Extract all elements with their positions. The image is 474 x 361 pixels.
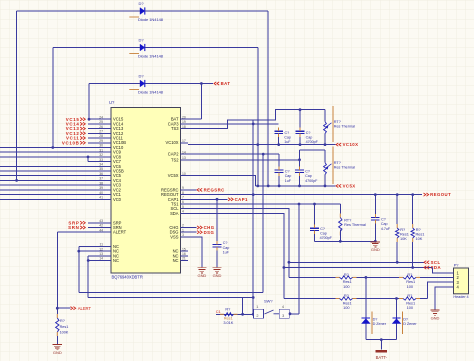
svg-text:10K: 10K (400, 236, 407, 241)
wire C1 net to boot resistor (216, 313, 253, 315)
pin VC0 (left, 41) (104, 198, 112, 200)
svg-text:4700pF: 4700pF (306, 140, 319, 144)
svg-text:4: 4 (282, 305, 284, 309)
wire NC3 horizontal run (88, 297, 253, 299)
pin SRN (left, 42) (104, 227, 112, 229)
wire ALERT to R 100K (56, 308, 58, 314)
wire BAT drop to pin (200, 84, 202, 120)
wire 4700pF g3 top (314, 204, 316, 225)
resistor R? 100 rail2 left (336, 298, 340, 300)
wire header pin4 to GND (435, 287, 446, 310)
resistor R? 100K pulldown (56, 314, 58, 318)
svg-text:4700pF: 4700pF (320, 236, 333, 240)
wire CAP1 stub (188, 198, 217, 200)
pin NC (left, 14) (104, 260, 112, 262)
pin NC (right, 21) (181, 260, 189, 262)
junction REGOUT / 4.7uF cap (374, 193, 377, 196)
wire D2 anode drop to VC10 (52, 48, 54, 148)
junction CAP3 row / long vertical (252, 123, 255, 126)
junction 1uF g2 bottom (278, 185, 281, 188)
svg-text:D?: D? (139, 38, 145, 43)
port BAT (214, 82, 219, 85)
pin SDA (right, 4) (181, 212, 189, 214)
svg-text:CAP2: CAP2 (168, 152, 179, 157)
wire cell tap VC1 (0, 194, 104, 196)
svg-text:C?: C? (306, 131, 311, 135)
junction SCL corner (288, 261, 291, 264)
svg-text:Cap: Cap (285, 174, 292, 178)
wire cell tap VC4 (0, 179, 104, 181)
wire D3 anode row (89, 83, 140, 85)
junction TS2 / 4700pF g2 (298, 158, 301, 161)
wire zener bottoms (366, 339, 397, 341)
svg-text:NC: NC (173, 258, 179, 263)
junction TS1 / 4700pF g3 (313, 203, 316, 206)
pin VC8 (left, 32) (104, 156, 112, 158)
pin 4 of header (446, 286, 454, 288)
junction at CAP2 row (262, 153, 265, 156)
svg-text:4700pF: 4700pF (305, 179, 318, 183)
svg-text:7: 7 (182, 196, 184, 200)
junction 4700pF g1 bottom (299, 143, 302, 146)
svg-text:ALERT: ALERT (78, 306, 92, 311)
svg-text:100: 100 (407, 284, 414, 289)
svg-text:1: 1 (256, 305, 258, 309)
svg-text:RT?: RT? (334, 120, 341, 124)
svg-text:GND: GND (213, 273, 222, 278)
pin lead mark of diode D1 (129, 16, 139, 18)
resistor R? 100 rail1 right (399, 276, 403, 278)
pin CHG (right, 2) (181, 227, 189, 229)
svg-text:R?: R? (60, 319, 65, 323)
svg-text:VC10B: VC10B (62, 140, 80, 145)
port SCL (424, 261, 429, 264)
wire pullup SDA top (412, 195, 414, 224)
pin CAP2 (right, 14) (181, 153, 189, 155)
wire ALERT drop (56, 232, 58, 308)
wire NC1 drop (78, 246, 80, 292)
switch SW? box1 (254, 309, 264, 318)
svg-text:C?: C? (285, 170, 290, 174)
ground GND under CAP1 cap (216, 266, 218, 269)
junction zener2 top on rail2 (395, 297, 398, 300)
wire boot riser to TS1 (298, 204, 300, 314)
pin VC2 (left, 39) (104, 189, 112, 191)
svg-text:REGOUT: REGOUT (430, 192, 451, 197)
svg-text:D Zener: D Zener (373, 322, 387, 326)
svg-text:14: 14 (182, 150, 186, 154)
svg-text:VC10X: VC10X (166, 140, 179, 145)
svg-text:17: 17 (182, 139, 186, 143)
svg-text:C1: C1 (216, 309, 221, 314)
pin TS1 (right, 6) (181, 203, 189, 205)
wire riser to CAP2 row (262, 154, 264, 292)
thermistor RT? group1 (324, 122, 327, 134)
junction switch pin1 (252, 313, 255, 316)
svg-text:100: 100 (343, 284, 350, 289)
svg-text:VC0: VC0 (113, 197, 122, 202)
wire cell tap VC8 (0, 156, 104, 158)
capacitor C? 4700pF group1 (296, 130, 305, 132)
wire cell tap VC5 (0, 175, 104, 177)
pin lead mark of diode D2 (129, 53, 139, 55)
wire D2 cathode row (145, 47, 258, 49)
wire group2 top link (300, 149, 326, 151)
wire 4700pF g1 to rail (299, 137, 301, 145)
resistor R? 10K SCL pullup (396, 224, 398, 228)
wire cell tap VC9 (0, 151, 104, 153)
junction 4700pF g2 bottom (298, 185, 301, 188)
svg-text:VC5X: VC5X (343, 184, 356, 189)
junction RT1 bottom (324, 143, 327, 146)
wire REGOUT rail (188, 194, 422, 196)
pin 3 of header (446, 281, 454, 283)
svg-text:20: 20 (182, 115, 186, 119)
connector P? Header 4 (454, 268, 469, 294)
pin VC5X (right, 10) (181, 175, 189, 177)
junction TS1 / boot vertical (298, 203, 301, 206)
svg-text:D Zener: D Zener (403, 322, 417, 326)
svg-text:21: 21 (182, 257, 186, 261)
pin CAP1 (right, 7) (181, 198, 189, 200)
svg-text:D?: D? (373, 317, 378, 321)
wire NC1 horizontal run (79, 291, 263, 293)
svg-text:Res Thermal: Res Thermal (334, 125, 355, 129)
wire NC4 stub (88, 260, 103, 262)
wire pullup SCL top (396, 195, 398, 224)
svg-text:1uF: 1uF (223, 250, 230, 254)
junction SDA / pullup (411, 266, 414, 269)
junction SDA corner (283, 266, 286, 269)
svg-text:Cap: Cap (320, 231, 327, 235)
svg-text:16: 16 (182, 252, 186, 256)
wire NC3 left (88, 255, 103, 257)
wire SDA bus (284, 267, 433, 269)
junction NC4 on NC3 drop (87, 259, 90, 262)
svg-text:VC5X: VC5X (168, 173, 179, 178)
port CHG (197, 226, 202, 229)
wire pullup SDA bottom (412, 242, 414, 268)
wire CHG stub (188, 227, 197, 229)
junction on C1 wire (241, 313, 244, 316)
wire VC7 jumper from VC8 (87, 157, 89, 162)
ground GND at VSS (201, 266, 203, 269)
svg-text:Cap: Cap (223, 246, 230, 250)
pin NC (left, 12) (104, 250, 112, 252)
power symbol BATT- (376, 350, 388, 353)
wire 1uF g2 to rail (278, 176, 280, 186)
pin lead mark of diode D3 (129, 89, 139, 91)
pin NC (left, 13) (104, 255, 112, 257)
wire SCL from pin (188, 209, 289, 263)
pin VC1 (left, 40) (104, 194, 112, 196)
wire SCL bus (289, 261, 424, 263)
pin VC5 (left, 36) (104, 175, 112, 177)
wire VC10B label to pin (88, 142, 104, 144)
wire VSS to GND (188, 237, 202, 267)
wire TS2 row (188, 159, 300, 161)
junction D2 at VC10X rail (256, 143, 259, 146)
wire header pin2 from rail1 (445, 277, 446, 279)
svg-text:Cap: Cap (306, 135, 313, 139)
wire RT2 bottom lead (324, 175, 326, 186)
wire D2 anode row (53, 47, 140, 49)
wire SRP label to pin (88, 222, 104, 224)
wire DSG stub (188, 231, 197, 233)
port SDA (424, 266, 429, 269)
svg-text:TS2: TS2 (171, 157, 179, 162)
wire stub TS3 jog to CAP3 row (252, 120, 254, 124)
svg-text:BQ76940XDBTR: BQ76940XDBTR (112, 274, 143, 279)
pin TS3 (right, 18) (181, 128, 189, 130)
svg-text:5: 5 (182, 205, 184, 209)
thermistor RT? group2 (324, 163, 327, 175)
junction BATT- node (380, 338, 383, 341)
junction 1uF g1 bottom (277, 143, 280, 146)
op IC U1 BQ76940 body (111, 108, 181, 274)
port REGSRC (197, 188, 202, 191)
pin VC10B (left, 29) (104, 142, 112, 144)
wire cell tap VC3 (0, 184, 104, 186)
wire BAT pin stub (188, 118, 201, 120)
pin VC12 (left, 27) (104, 132, 112, 134)
svg-text:SRN: SRN (68, 225, 79, 230)
switch SW? arm (265, 310, 274, 314)
port DSG (197, 231, 202, 234)
pin NC (right, 16) (181, 255, 189, 257)
wire rail1 SCL to header pin2 (288, 262, 290, 277)
svg-text:1uF: 1uF (285, 179, 292, 183)
wire cell tap VC5B (0, 170, 104, 172)
svg-text:3: 3 (282, 314, 284, 318)
junction NC3 run at long vertical (252, 296, 255, 299)
wire VC5X rail (256, 185, 336, 187)
wire D1 anode drop to VC4 (16, 11, 18, 180)
junction switch pin3 (289, 312, 292, 315)
port ALERT (71, 307, 76, 310)
pin VC13 (left, 26) (104, 128, 112, 130)
wire CAP1 drop to cap (216, 199, 218, 241)
capacitor C? 1uF group2 (275, 169, 284, 171)
pin VC3 (left, 38) (104, 184, 112, 186)
wire TS3 path (188, 110, 325, 129)
wire CAP1 to port (217, 198, 228, 200)
resistor R? 3.01K boot (220, 313, 224, 315)
junction zener1 top on rail1 (365, 276, 368, 279)
svg-text:C?: C? (285, 131, 290, 135)
junction D1 anode at VC4 (15, 179, 18, 182)
wire CAP2 row (188, 153, 279, 155)
svg-text:Diode 1N4148: Diode 1N4148 (138, 17, 164, 22)
wire 100K to GND (56, 336, 58, 344)
pin CAP3 (right, 19) (181, 123, 189, 125)
svg-text:4.7uF: 4.7uF (381, 227, 391, 231)
port VC10X (336, 143, 341, 146)
svg-text:RT?: RT? (334, 161, 341, 165)
svg-text:9: 9 (182, 186, 184, 190)
wire 1uF g1 to rail (278, 137, 280, 145)
pin REGOUT (right, 8) (181, 194, 189, 196)
pin 2 of header (446, 277, 454, 279)
junction REGOUT / long vertical (252, 193, 255, 196)
pin VC6 (left, 34) (104, 165, 112, 167)
svg-text:GND: GND (53, 350, 62, 355)
svg-text:Header 4: Header 4 (453, 295, 468, 299)
wire ALERT to port (57, 307, 70, 309)
thermistor RT? group3 (339, 214, 341, 218)
diode D2 1N4148 (140, 44, 145, 51)
svg-text:C?: C? (320, 227, 325, 231)
pin VC15 (left, 24) (104, 118, 112, 120)
wire NC1 left (79, 245, 104, 247)
wire SRN label to pin (88, 227, 104, 229)
diode D3 1N4148 (140, 80, 145, 87)
wire RT1 top lead (324, 110, 326, 122)
svg-text:10K: 10K (416, 236, 423, 241)
wire D1 cathode row (145, 10, 268, 12)
svg-text:Diode 1N4148: Diode 1N4148 (138, 54, 164, 59)
wire VC14 label to pin (88, 123, 104, 125)
svg-text:DSG: DSG (204, 230, 215, 235)
svg-text:BATT-: BATT- (376, 355, 388, 360)
svg-text:100K: 100K (60, 331, 69, 335)
svg-text:REGSRC: REGSRC (204, 188, 225, 193)
junction D1 at VC5X rail (267, 185, 270, 188)
zener diode D? on rail2 (396, 299, 398, 340)
junction BAT wire (200, 82, 203, 85)
junction RT3 bottom on gnd rail (339, 240, 342, 243)
wire cell tap VC2 (0, 189, 104, 191)
wire pullup SCL bottom (396, 242, 398, 262)
junction NC2 on NC1 drop (77, 250, 80, 253)
svg-text:15: 15 (182, 247, 186, 251)
svg-text:2: 2 (256, 314, 258, 318)
pin 1 of header (446, 272, 454, 274)
wire RT2 top lead (324, 150, 326, 163)
diode D1 1N4148 (140, 8, 145, 15)
port VC5X (336, 184, 341, 187)
svg-text:1: 1 (182, 228, 184, 232)
pin VC5B (left, 35) (104, 170, 112, 172)
svg-text:10: 10 (182, 172, 186, 176)
svg-text:C?: C? (305, 170, 310, 174)
resistor R? 100 rail1 left (336, 276, 340, 278)
svg-text:3.01K: 3.01K (223, 320, 233, 325)
svg-text:1uF: 1uF (284, 140, 291, 144)
wire cell tap VC0 (0, 198, 104, 200)
svg-text:D?: D? (139, 1, 145, 6)
resistor R? 10K SDA pullup (412, 224, 414, 228)
wire rail2 SDA to header pin4 (283, 268, 285, 299)
wire 4700pF g1 top to TS3 line (299, 110, 301, 128)
pin VC10X (right, 17) (181, 142, 189, 144)
ground GND group3 (374, 240, 376, 243)
wire CAP2 to 1uF g2 (278, 154, 280, 166)
wire VC11 label to pin (88, 137, 104, 139)
svg-text:SDA: SDA (170, 211, 179, 216)
ground GND header pin4 (434, 309, 436, 312)
svg-text:2: 2 (182, 224, 184, 228)
pin BAT (right, 20) (181, 118, 189, 120)
ground GND under 100K (56, 343, 58, 346)
junction VC8/VC7 jumper (87, 156, 90, 159)
pin SCL (right, 5) (181, 208, 189, 210)
svg-text:8: 8 (182, 191, 184, 195)
svg-text:ALERT: ALERT (113, 230, 127, 235)
pin VC9 (left, 31) (104, 151, 112, 153)
resistor R? 100 rail2 right (399, 298, 403, 300)
svg-text:NC: NC (113, 258, 119, 263)
pin VC10 (left, 30) (104, 147, 112, 149)
pin SRP (left, 43) (104, 222, 112, 224)
svg-text:C?: C? (381, 218, 386, 222)
wire VC13 label to pin (88, 128, 104, 130)
junction REGOUT / pullup R SDA (411, 193, 414, 196)
wire long vertical CAP3-to-switch (252, 120, 254, 314)
svg-text:100: 100 (407, 305, 414, 310)
svg-text:Res1: Res1 (60, 325, 69, 329)
svg-text:C?: C? (223, 241, 228, 245)
wire 4700pF g2 top (299, 150, 301, 167)
svg-text:6: 6 (182, 200, 184, 204)
wire RT3 top (339, 204, 341, 214)
wire TS1 row (188, 203, 340, 205)
wire D3 cathode to BAT port (145, 83, 213, 85)
capacitor C? 4700pF group2 (295, 169, 304, 171)
wire GND rail group3 (315, 240, 376, 242)
capacitor C? 1uF group1 (274, 130, 283, 132)
pin VSS (right, 3) (181, 236, 189, 238)
wire switch to boot riser (289, 313, 299, 315)
svg-text:Cap: Cap (284, 135, 291, 139)
svg-text:CAP1: CAP1 (235, 197, 248, 202)
pin VC14 (left, 25) (104, 123, 112, 125)
pin VC11 (left, 28) (104, 137, 112, 139)
junction 4.7uF bottom on gnd rail (374, 240, 377, 243)
wire VC7 stub (88, 161, 104, 163)
capacitor C? 4700pF group3 (310, 227, 319, 229)
port REGOUT (424, 193, 429, 196)
junction RT2 bottom (324, 185, 327, 188)
pin TS2 (right, 13) (181, 159, 189, 161)
pin ALERT (left, 44) (104, 231, 112, 233)
junction 4700pF g1 top (299, 108, 302, 111)
junction D3 anode at VC15 (88, 118, 91, 121)
pin VC7 (left, 33) (104, 161, 112, 163)
svg-text:100: 100 (343, 305, 350, 310)
wire NC2 stub (79, 250, 104, 252)
wire D3 anode drop to VC15 (88, 84, 90, 120)
junction CAP1 node (216, 198, 219, 201)
pin NC (right, 15) (181, 250, 189, 252)
svg-text:D?: D? (403, 317, 408, 321)
wire NC3 run drop to C1 wire (242, 298, 244, 315)
wire 4700pF g2 to rail (299, 176, 301, 186)
junction SCL / pullup (396, 261, 399, 264)
svg-text:U?: U? (109, 100, 115, 105)
wire D1 anode row (17, 10, 140, 12)
junction D2 anode at VC10 (51, 146, 54, 149)
wire VC12 label to pin (88, 132, 104, 134)
svg-text:3: 3 (182, 233, 184, 237)
wire VC15 label to pin (88, 118, 104, 120)
svg-text:4: 4 (182, 210, 184, 214)
pin NC (left, 11) (104, 245, 112, 247)
wire D2 cathode drop through rails (257, 48, 259, 186)
svg-text:VC10X: VC10X (343, 142, 359, 147)
wire ALERT pin to left (57, 231, 103, 233)
svg-text:VSS: VSS (170, 234, 178, 239)
